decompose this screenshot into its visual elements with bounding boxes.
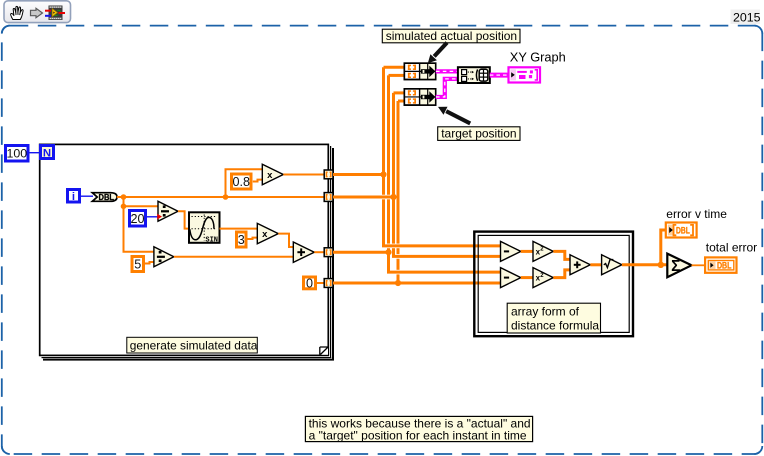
wire 100 to N xyxy=(29,152,40,154)
generate simulated data label xyxy=(127,337,258,353)
total error indicator (DBL) xyxy=(705,257,736,272)
wire V3 top into bundle2 row1 xyxy=(394,91,405,94)
wire add2 to sqrt xyxy=(590,263,601,266)
for loop frame xyxy=(40,144,334,360)
toolbar run arrow icon xyxy=(31,8,43,17)
svg-text:simulated actual position: simulated actual position xyxy=(386,29,517,43)
wire divide2 to add bottom xyxy=(174,256,293,258)
wire V4 top into bundle2 row2 xyxy=(398,100,404,103)
XY Graph terminal xyxy=(509,67,541,82)
constant 0 xyxy=(304,276,316,290)
svg-text:SIN: SIN xyxy=(205,236,218,244)
constant 5 xyxy=(132,257,144,272)
tunnel T3 xyxy=(324,248,333,257)
wire up to error v time xyxy=(661,230,666,265)
divide node 1 xyxy=(158,201,178,221)
vertical wire V2 (actual y) xyxy=(387,75,390,272)
wire subtract2 to square2 xyxy=(521,276,533,279)
svg-text:array form of: array form of xyxy=(511,305,580,319)
wire V1 bottom into subtract1 top xyxy=(382,244,501,247)
junction dot V3 xyxy=(390,194,396,200)
svg-text:20: 20 xyxy=(130,212,144,226)
sine function icon xyxy=(189,212,220,244)
divide node 2 xyxy=(154,247,174,267)
array wire from tunnel T4 xyxy=(333,282,501,285)
wire 3 to multiply2 xyxy=(248,238,258,239)
square root node xyxy=(602,255,622,275)
square node 2 xyxy=(533,268,553,288)
coercion node To-DBL xyxy=(92,192,117,202)
wire 5 to divide2 xyxy=(145,262,154,264)
svg-text:DBL: DBL xyxy=(676,226,690,236)
junction dot V1 xyxy=(380,171,386,177)
bottom comment box xyxy=(305,416,532,442)
wire up to multiply1 top input xyxy=(226,169,263,197)
svg-text:DBL: DBL xyxy=(717,261,732,271)
wire sqrt out of frame to sum xyxy=(622,263,667,266)
subtract node 1 xyxy=(501,241,521,261)
svg-text:a "target" position for each i: a "target" position for each instant in … xyxy=(309,429,527,443)
svg-text:error v time: error v time xyxy=(666,207,727,221)
wire 0.8 to multiply1 xyxy=(253,180,262,182)
iteration terminal i xyxy=(68,190,80,204)
wire to divide1 top input xyxy=(124,205,159,207)
annotation arrow to bundle1 xyxy=(428,43,447,64)
cluster wire bundle2 to build-array xyxy=(436,79,458,97)
cluster wire bundle1 to build-array xyxy=(436,69,458,73)
constant 20 xyxy=(130,211,146,227)
tunnel T1 xyxy=(324,170,333,179)
svg-text:distance formula: distance formula xyxy=(511,319,599,333)
multiply node x1 xyxy=(262,164,283,184)
array wire from tunnel T1 xyxy=(333,173,384,176)
svg-text:0.8: 0.8 xyxy=(233,175,251,189)
wire V2 top into bundle1 row2 xyxy=(389,74,405,77)
svg-text:x: x xyxy=(267,170,273,181)
svg-text:i: i xyxy=(72,191,75,203)
svg-text:DBL: DBL xyxy=(99,192,115,202)
toolbar xyxy=(4,1,71,23)
toolbar LabVIEW VI film-strip icon xyxy=(45,6,65,21)
svg-text:XY Graph: XY Graph xyxy=(510,49,566,64)
constant 0.8 xyxy=(232,174,252,189)
wire multiply1 to tunnel1 xyxy=(283,174,325,176)
constant 100 xyxy=(6,146,29,162)
constant 3 xyxy=(237,232,247,247)
wire multiply2 to add xyxy=(278,234,293,247)
node junction dot for 0.8 multiply branch xyxy=(223,194,229,200)
error v time indicator (DBL array) xyxy=(666,223,697,238)
wire 20 to divide1 (blue) xyxy=(147,216,158,218)
simulated actual position label xyxy=(382,29,520,43)
wire divide1 to sine xyxy=(178,211,189,228)
sum (add array elements) node xyxy=(667,254,691,278)
wire DBL to tunnel2 (i as DBL) xyxy=(117,196,325,198)
vertical wire V1 (actual x) xyxy=(382,67,385,246)
svg-text:generate simulated data: generate simulated data xyxy=(130,338,258,352)
svg-text:3: 3 xyxy=(238,233,245,247)
build cluster array node xyxy=(458,67,490,83)
svg-text:2015: 2015 xyxy=(733,10,761,24)
wire V1 top into bundle1 row1 xyxy=(384,66,405,69)
toolbar hand (pan) tool icon xyxy=(11,6,24,19)
wire square1 to add2 xyxy=(553,251,570,259)
multiply node x2 xyxy=(257,223,278,243)
label 2015 xyxy=(731,10,761,25)
wire subtract1 to square1 xyxy=(521,250,533,253)
add node xyxy=(293,242,314,262)
wire V2 bottom into subtract2 top xyxy=(387,271,501,274)
target position label xyxy=(438,127,520,141)
array wire from tunnel T2 xyxy=(333,196,394,199)
array form of distance formula label xyxy=(507,303,600,333)
wire add to tunnel3 xyxy=(314,251,325,253)
subtract node 2 xyxy=(501,268,521,288)
svg-text:total error: total error xyxy=(706,240,757,254)
svg-text:Σ: Σ xyxy=(671,258,680,275)
junction dot V4 xyxy=(395,280,401,286)
wire i branch down xyxy=(124,197,154,252)
node junction dot on i wire xyxy=(121,194,127,200)
coercion red dot xyxy=(157,214,162,220)
distance formula frame xyxy=(474,232,633,337)
svg-text:target position: target position xyxy=(441,127,516,141)
square node 1 xyxy=(533,241,553,261)
node junction dot for divide branch xyxy=(121,204,127,210)
tunnel T2 xyxy=(324,193,333,202)
bundle node 2 (target position) xyxy=(404,89,435,105)
wire sine to multiply2 xyxy=(220,228,258,230)
vertical wire V3 (target x) xyxy=(392,93,395,257)
loop count terminal N xyxy=(41,146,54,160)
wire square2 to add2 xyxy=(553,270,570,278)
vertical wire V4 (target y) xyxy=(397,101,400,283)
wire sum to total error xyxy=(692,264,706,266)
for loop fold corner xyxy=(320,347,328,355)
svg-text:N: N xyxy=(43,147,51,159)
add node 2 xyxy=(570,255,590,275)
junction dot V2 xyxy=(385,249,391,255)
tunnel T4 xyxy=(324,279,333,288)
svg-text:x: x xyxy=(262,229,268,240)
cluster-array wire to XY Graph xyxy=(490,73,509,78)
bundle node 1 (simulated actual position) xyxy=(404,63,435,79)
array wire from tunnel T3 xyxy=(333,251,389,254)
wire V3 bottom into subtract1 bottom xyxy=(392,255,501,258)
svg-text:5: 5 xyxy=(134,258,141,272)
svg-text:100: 100 xyxy=(6,147,27,161)
annotation arrow to bundle2 xyxy=(438,107,470,124)
svg-text:0: 0 xyxy=(306,276,313,290)
wire i to DBL xyxy=(81,195,93,197)
wire 0 to tunnel4 xyxy=(317,282,325,284)
junction dot error wire xyxy=(658,262,664,268)
